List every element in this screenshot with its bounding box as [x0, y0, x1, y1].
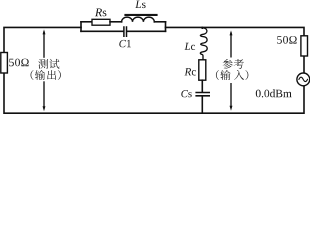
- arrow (reference/input) top head: [230, 30, 233, 35]
- resistor Rs box: [92, 19, 110, 25]
- label Rc: [184, 68, 196, 75]
- arrow (reference/input) shaft: [230, 33, 232, 109]
- arrow (test/output) shaft: [43, 32, 45, 109]
- wire: Rc to Cs: [201, 80, 203, 92]
- label: (输入): [216, 70, 219, 80]
- wire: top rail right segment: [166, 27, 305, 35]
- capacitor C1 plates: [124, 27, 127, 36]
- resistor Rc box: [199, 60, 206, 80]
- label Cs: [181, 90, 191, 97]
- wire: bottom branch left: [81, 30, 123, 32]
- wire: top branch to Rs: [81, 21, 92, 23]
- resistor R_left 50ohm box: [1, 53, 8, 74]
- wire: middle branch junction from top rail: [201, 26, 203, 29]
- wire: top rail left segment: [4, 27, 81, 52]
- label Ls: [135, 1, 145, 9]
- wire: Ls to right edge: [154, 21, 165, 23]
- label: 参考: [223, 59, 233, 69]
- capacitor Cs plates: [196, 93, 209, 96]
- label text background right: [221, 58, 251, 84]
- AC source V1 circle: [297, 73, 310, 86]
- label Lc: [185, 43, 196, 50]
- label: 测试: [38, 59, 48, 69]
- node A: parallel box left edge: [80, 22, 82, 32]
- label 50ohm right: [277, 36, 296, 44]
- label 50ohm left: [9, 59, 28, 67]
- node B: parallel box right edge: [165, 22, 167, 32]
- wire: Cs to bottom rail: [201, 97, 203, 114]
- label text background left: [36, 58, 65, 82]
- label: (输出): [31, 70, 34, 80]
- wire: bottom branch right: [127, 30, 165, 32]
- wire: Rs to Ls: [110, 21, 122, 23]
- inductor Ls coil: [122, 17, 155, 22]
- inductor Ls core bar: [124, 14, 157, 16]
- arrow (test/output) top head: [43, 29, 46, 34]
- AC source sine wave: [299, 77, 308, 81]
- arrow (test/output) bottom head: [43, 106, 46, 111]
- wire: bottom rail: [4, 73, 304, 113]
- label 0.0dBm: [256, 89, 292, 97]
- resistor R_right 50ohm box: [301, 36, 308, 56]
- label C1: [119, 40, 131, 47]
- wire: right vertical between box and source: [303, 56, 305, 73]
- label Rs: [95, 9, 107, 17]
- inductor Lc coil (vertical): [200, 28, 207, 60]
- arrow (reference/input) bottom head: [230, 106, 233, 111]
